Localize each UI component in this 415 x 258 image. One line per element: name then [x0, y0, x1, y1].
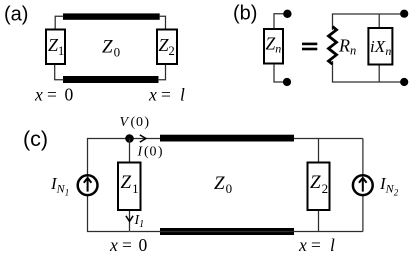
svg-text:(c): (c)	[23, 127, 48, 151]
transmission line bottom bar (c)	[160, 228, 294, 235]
svg-text:x=0: x=0	[34, 85, 74, 105]
wire Z1 bottom to line (a)	[55, 65, 64, 80]
wire Zn bottom (b)	[274, 64, 285, 82]
current source IN2 circle (c)	[353, 175, 373, 195]
svg-text:I(0): I(0)	[137, 145, 163, 160]
current source IN1 arrow (c)	[84, 178, 92, 192]
transmission line bottom bar (a)	[63, 76, 159, 83]
wire top rail right segment (c)	[294, 138, 363, 140]
wire bottom rail (c)	[130, 231, 363, 233]
terminal dot bottom right (b)	[400, 78, 408, 86]
current source IN1 circle (c)	[78, 175, 98, 195]
terminal dot top left (b)	[283, 10, 291, 18]
terminal dot top right (b)	[400, 10, 408, 18]
impedance Z2 box (c)	[308, 163, 330, 211]
wire left rail (c)	[88, 139, 162, 175]
impedance Z1 box (a)	[46, 30, 65, 65]
wire right rail bottom (c)	[362, 196, 364, 232]
wire Z2 top to line (a)	[159, 16, 165, 29]
svg-text:x=l: x=l	[298, 235, 335, 255]
wire left branch bottom (b)	[333, 61, 401, 82]
svg-text:V(0): V(0)	[120, 115, 150, 130]
wire left branch top (b)	[333, 14, 401, 30]
impedance Z2 box (a)	[157, 30, 177, 65]
node dot V(0) (c)	[125, 134, 134, 143]
svg-text:Rn: Rn	[338, 36, 356, 58]
current arrow I(0) (c)	[140, 135, 146, 142]
wire right rail top (c)	[362, 139, 364, 175]
wire Z2 to bottom rail (c)	[318, 211, 320, 232]
wire left bottom (c)	[88, 196, 130, 232]
transmission line top bar (a)	[63, 13, 160, 19]
equals sign (b)	[302, 43, 317, 51]
svg-text:I1: I1	[134, 213, 145, 230]
wire Z2 bottom to line (a)	[158, 65, 166, 80]
wire node to Z1 (c)	[129, 139, 131, 163]
current source IN2 arrow (c)	[359, 178, 367, 192]
svg-text:Z0: Z0	[214, 173, 232, 196]
resistor Rn zigzag (b)	[329, 27, 337, 65]
svg-text:x=0: x=0	[109, 235, 148, 255]
wire iXn top (b)	[378, 14, 380, 28]
impedance Zn box (b)	[264, 29, 283, 64]
svg-text:(a): (a)	[4, 4, 28, 26]
wire Z1 to bottom rail with I1 arrow (c)	[126, 211, 133, 232]
impedance Z1 box (c)	[118, 163, 141, 211]
wire Zn top (b)	[274, 14, 285, 29]
transmission line top bar (c)	[160, 135, 294, 142]
svg-text:IN2: IN2	[379, 174, 399, 198]
svg-text:x=l: x=l	[148, 85, 185, 105]
svg-text:(b): (b)	[233, 3, 257, 25]
wire Z1 top to line (a)	[55, 16, 63, 29]
wire iXn bottom (b)	[378, 65, 380, 82]
wire rail to Z2 (c)	[318, 139, 320, 163]
svg-text:IN1: IN1	[50, 174, 69, 198]
terminal dot bottom left (b)	[283, 78, 291, 86]
svg-text:Z0: Z0	[102, 37, 120, 60]
reactance iXn box (b)	[368, 28, 392, 65]
